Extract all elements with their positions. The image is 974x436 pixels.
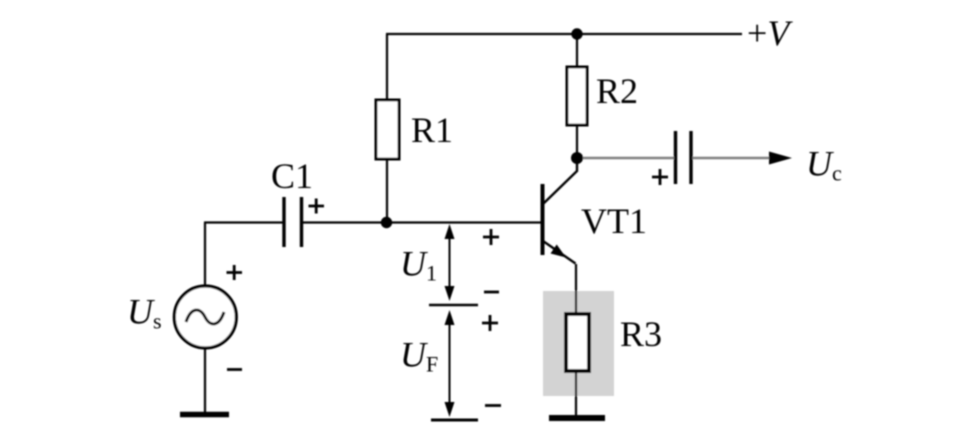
svg-text:R2: R2 <box>596 71 638 111</box>
svg-text:R1: R1 <box>411 110 453 150</box>
svg-text:VT1: VT1 <box>581 201 647 241</box>
svg-text:+V: +V <box>747 13 793 53</box>
svg-text:R3: R3 <box>620 314 662 354</box>
svg-text:C1: C1 <box>271 156 313 196</box>
